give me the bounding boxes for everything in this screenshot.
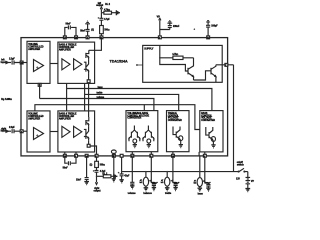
svg-text:8: 8	[96, 156, 97, 158]
bottom pin boxes	[63, 154, 206, 157]
wires lower blocks to bottom edge	[65, 152, 205, 156]
svg-text:12V: 12V	[236, 179, 240, 181]
VP terminal	[157, 16, 161, 36]
svg-text:56nF: 56nF	[66, 24, 72, 26]
svg-text:treble: treble	[97, 91, 104, 94]
op-amp block: bass & treble controlled amplifier (left channel)	[58, 42, 95, 83]
svg-text:SUPPLY: SUPPLY	[144, 48, 154, 51]
current source ellipse converter A	[133, 139, 137, 143]
svg-text:13: 13	[207, 37, 209, 39]
svg-text:220nF: 220nF	[174, 182, 180, 184]
svg-text:volume: volume	[128, 193, 137, 195]
svg-text:2: 2	[87, 37, 88, 39]
svg-text:100μF: 100μF	[211, 26, 218, 28]
svg-text:3: 3	[159, 37, 160, 39]
right output terminal	[94, 176, 101, 193]
ground symbol inside converter A	[133, 143, 137, 148]
capacitor 47uF bus decoupling	[118, 154, 130, 183]
svg-text:220nF: 220nF	[205, 182, 211, 184]
supply pin stub	[136, 64, 143, 66]
current source ellipse bass converter	[211, 137, 215, 142]
pin box volume amp control input	[38, 83, 41, 86]
control line volume	[40, 83, 154, 110]
IC outline TDA1524A	[21, 38, 228, 156]
converter transistor pair B	[143, 126, 154, 142]
load resistor RL at right output	[97, 174, 114, 178]
left input terminal	[1, 59, 11, 64]
svg-text:5: 5	[113, 156, 114, 158]
top pin boxes	[63, 36, 209, 39]
svg-text:output: output	[96, 4, 103, 7]
ground symbol inside bass converter	[211, 141, 215, 148]
svg-text:balance: balance	[143, 193, 152, 195]
svg-text:9: 9	[150, 156, 151, 158]
svg-text:bass: bass	[198, 193, 204, 195]
output transistor stage (left channel)	[84, 50, 90, 82]
supply block	[143, 45, 223, 82]
svg-text:2.2μF: 2.2μF	[9, 127, 15, 129]
svg-text:CONVERTER: CONVERTER	[201, 120, 215, 122]
svg-text:switch: switch	[237, 164, 244, 167]
svg-text:18: 18	[64, 156, 66, 158]
transistor Q1 (supply)	[188, 58, 194, 80]
svg-text:(1): (1)	[91, 29, 94, 31]
svg-text:AMPLIFIER: AMPLIFIER	[59, 117, 71, 120]
svg-text:330Ω: 330Ω	[100, 163, 106, 166]
converter transistor pair A	[129, 126, 140, 142]
svg-text:330Ω: 330Ω	[104, 28, 110, 31]
capacitor 2.2uF right input	[9, 127, 20, 133]
capacitor 56nF loop across pins 17/16	[65, 24, 76, 36]
svg-text:4.7kΩ: 4.7kΩ	[172, 53, 178, 56]
ground sideways at right output load	[114, 174, 117, 179]
capacitor 15nF to ground	[76, 157, 89, 184]
svg-text:treble: treble	[165, 192, 172, 195]
svg-text:4.7kΩ: 4.7kΩ	[104, 8, 110, 11]
transistor Q2 (supply)	[194, 65, 216, 83]
svg-text:47μF: 47μF	[124, 175, 130, 178]
output transistor stage (right channel)	[84, 117, 97, 156]
control line bass	[66, 83, 212, 111]
IC label TDA1524A	[110, 60, 129, 64]
svg-text:17: 17	[64, 37, 66, 39]
drop from volume-right line to converter	[144, 104, 145, 111]
capacitor 56nF loop below pins	[63, 157, 76, 169]
svg-text:7: 7	[225, 65, 226, 67]
svg-text:CONVERTER: CONVERTER	[127, 118, 141, 120]
wire linking output stages	[88, 83, 90, 117]
svg-text:AMPLIFIER: AMPLIFIER	[28, 117, 40, 120]
svg-text:AMPLIFIER: AMPLIFIER	[28, 48, 40, 51]
pin box right input	[20, 130, 27, 133]
resistor 3300 ohm at right output pin	[90, 157, 106, 167]
svg-text:output: output	[94, 189, 101, 192]
svg-text:kΩ: kΩ	[161, 181, 164, 184]
svg-text:220nF: 220nF	[152, 182, 158, 184]
potentiometer bass	[194, 156, 212, 196]
load resistor RL at left output	[101, 4, 116, 14]
svg-text:bass: bass	[98, 87, 104, 89]
ground symbol inside converter B	[147, 143, 151, 148]
supply wires	[159, 45, 193, 71]
svg-text:11: 11	[100, 37, 102, 39]
op-amp block: bass & treble controlled amplifier (right channel)	[58, 111, 95, 152]
control line treble	[84, 83, 179, 111]
battery VP	[236, 172, 255, 192]
converter bass transistors	[206, 127, 214, 141]
svg-text:56nF: 56nF	[63, 168, 69, 170]
potentiometer treble	[161, 157, 180, 195]
ground sideways at left output load	[116, 10, 119, 15]
current source ellipse converter B	[147, 139, 151, 143]
svg-text:56nF: 56nF	[80, 30, 86, 32]
pin box left input	[20, 61, 27, 64]
svg-text:AMPLIFIER: AMPLIFIER	[59, 48, 71, 51]
resistor 3300 ohm at left output pin	[91, 26, 110, 36]
ground symbol inside treble converter	[179, 141, 183, 148]
svg-text:R L 2: R L 2	[105, 4, 111, 6]
V-ref bus to potentiometers	[122, 171, 234, 173]
svg-text:R g 4.900Ω: R g 4.900Ω	[1, 98, 12, 101]
svg-text:2.2μF: 2.2μF	[9, 58, 15, 60]
control voltage converter block: bass	[200, 111, 223, 152]
op-amp block: volume controlled amplifier (right channel)	[27, 111, 50, 152]
svg-text:TDA1524A: TDA1524A	[110, 60, 129, 64]
volume wiper capacitor chain	[128, 157, 137, 195]
svg-text:10: 10	[172, 156, 174, 158]
pin box right edge	[225, 63, 228, 66]
svg-text:12: 12	[131, 156, 133, 158]
capacitor 2.2uF left input	[9, 58, 20, 64]
pin ellipse and ground chain	[111, 150, 116, 182]
control voltage converter block: volume/balance	[126, 111, 158, 152]
resistor 4.7k in supply	[172, 53, 183, 59]
svg-text:(1): (1)	[90, 164, 93, 166]
capacitor 220nF at VP	[160, 21, 180, 30]
capacitor 4.7uF right output	[93, 168, 106, 177]
svg-text:15: 15	[21, 63, 23, 65]
wire volume amp to bass amp (right ch)	[50, 131, 58, 133]
svg-text:15nF: 15nF	[76, 179, 82, 181]
potentiometer balance	[140, 157, 159, 195]
svg-text:6: 6	[204, 156, 205, 158]
capacitor 4.7uF left output	[98, 13, 111, 26]
svg-text:1: 1	[75, 156, 76, 158]
figure reference text	[1, 98, 12, 101]
capacitor 56nF with ground above	[80, 21, 90, 36]
svg-text:16: 16	[75, 37, 77, 39]
svg-text:4.7μF: 4.7μF	[104, 18, 110, 21]
left output terminal	[96, 2, 103, 13]
svg-text:CONVERTER: CONVERTER	[168, 120, 182, 122]
capacitor 100uF at supply pin	[194, 21, 219, 36]
wire volume amp to bass amp (left ch)	[50, 63, 58, 65]
current source ellipse treble converter	[179, 136, 183, 141]
svg-text:volume: volume	[97, 97, 105, 99]
svg-text:R L 2: R L 2	[102, 174, 108, 176]
svg-text:220nF: 220nF	[173, 26, 180, 28]
svg-text:V P: V P	[251, 181, 255, 183]
svg-text:kΩ: kΩ	[140, 181, 143, 184]
wire pin 11 to amplifier output	[89, 39, 102, 50]
control voltage converter block: treble	[167, 111, 190, 152]
supply output wire to V-ref bus	[216, 65, 234, 172]
on/off switch	[234, 162, 248, 172]
svg-text:kΩ: kΩ	[194, 182, 197, 185]
converter treble transistors	[173, 127, 181, 141]
right input terminal	[1, 127, 11, 132]
control line volume right channel	[35, 105, 200, 130]
op-amp block: volume controlled amplifier (left channel)	[27, 41, 50, 83]
